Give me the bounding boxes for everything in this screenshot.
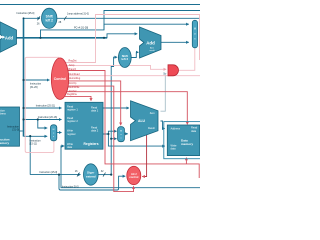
svg-text:Add: Add — [5, 36, 14, 41]
svg-text:left 2: left 2 — [122, 57, 129, 61]
svg-text:data 1: data 1 — [91, 109, 99, 113]
svg-text:Result: Result — [148, 127, 155, 130]
svg-text:RegDst: RegDst — [69, 60, 77, 63]
svg-text:memory: memory — [0, 141, 9, 145]
svg-text:register 2: register 2 — [67, 119, 78, 123]
svg-text:Instruction [20-16]: Instruction [20-16] — [38, 116, 57, 119]
svg-text:Instruction [15-0]: Instruction [15-0] — [39, 171, 57, 174]
svg-text:Control: Control — [54, 77, 66, 81]
svg-text:PC+4 [31-28]: PC+4 [31-28] — [74, 27, 88, 30]
svg-text:memory: memory — [181, 142, 193, 146]
svg-text:M: M — [53, 129, 55, 131]
svg-text:Jump: Jump — [69, 64, 76, 67]
svg-text:ALU: ALU — [138, 119, 146, 123]
svg-text:[31-26]: [31-26] — [30, 86, 38, 89]
svg-text:result: result — [149, 49, 155, 52]
svg-text:left 2: left 2 — [45, 18, 53, 22]
svg-text:Instruction [25-21]: Instruction [25-21] — [36, 105, 55, 108]
svg-text:Jump address [31-0]: Jump address [31-0] — [67, 13, 89, 16]
svg-text:M: M — [120, 131, 122, 133]
svg-text:MemtoReg: MemtoReg — [69, 77, 81, 80]
svg-text:data: data — [67, 145, 73, 149]
svg-text:Registers: Registers — [84, 142, 99, 146]
svg-text:Zero: Zero — [150, 112, 156, 115]
svg-text:ALUOp: ALUOp — [69, 82, 78, 85]
svg-text:register: register — [67, 132, 76, 136]
svg-text:MemRead: MemRead — [69, 73, 81, 76]
svg-text:Instruction [5-0]: Instruction [5-0] — [62, 185, 79, 188]
svg-text:[31-0]: [31-0] — [12, 128, 19, 132]
svg-text:control: control — [129, 175, 138, 179]
svg-text:data 2: data 2 — [91, 129, 99, 133]
svg-text:MemWrite: MemWrite — [69, 86, 81, 89]
svg-text:M: M — [194, 27, 196, 31]
svg-text:extend: extend — [86, 174, 96, 178]
svg-text:Branch: Branch — [69, 68, 77, 71]
svg-text:register 1: register 1 — [67, 108, 78, 112]
svg-text:Add: Add — [146, 41, 155, 46]
svg-text:Instruction [25-0]: Instruction [25-0] — [17, 12, 35, 15]
svg-text:address: address — [0, 112, 7, 116]
svg-text:data: data — [171, 146, 177, 150]
svg-text:[15-11]: [15-11] — [30, 143, 38, 146]
svg-text:Address: Address — [171, 127, 181, 131]
svg-text:RegWrite: RegWrite — [67, 93, 78, 96]
svg-text:data: data — [191, 129, 197, 133]
